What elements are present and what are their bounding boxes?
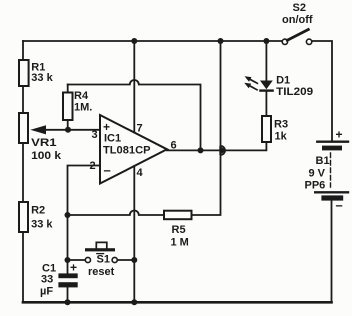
svg-text:9 V: 9 V: [309, 168, 326, 180]
svg-text:–: –: [104, 163, 111, 178]
node junction C1 bottom / rail: [65, 299, 71, 305]
wire R4 top to output (hop over pin7 line): [68, 80, 201, 150]
node junction R4 feedback / output: [198, 147, 204, 153]
svg-text:33 k: 33 k: [31, 72, 53, 84]
wire pin 2 to C1 node: [68, 166, 101, 216]
svg-text:IC1: IC1: [104, 133, 121, 145]
svg-text:R3: R3: [274, 119, 288, 131]
svg-text:µF: µF: [40, 286, 53, 298]
LED D1 TIL209: [244, 41, 313, 98]
wire pin 4 down to 0V rail: [133, 166, 135, 302]
wire bottom rail: [23, 301, 332, 304]
svg-text:R4: R4: [74, 90, 89, 102]
svg-text:33: 33: [41, 274, 53, 286]
node junction S1 right / pin4 line: [131, 257, 137, 263]
svg-text:VR1: VR1: [31, 137, 56, 149]
wire battery bottom to rail: [331, 201, 333, 302]
capacitor C1: [40, 215, 78, 302]
node junction pin7 / top rail: [131, 38, 137, 44]
svg-text:1 M: 1 M: [171, 237, 189, 249]
svg-text:R5: R5: [172, 224, 186, 236]
node junction R5 riser / top rail: [218, 38, 224, 44]
switch S2 on/off: [282, 2, 313, 45]
svg-text:33 k: 33 k: [31, 219, 53, 231]
svg-text:D1: D1: [276, 75, 290, 87]
wire left rail: [22, 41, 24, 302]
battery B1: [305, 128, 349, 213]
svg-text:PP6: PP6: [305, 180, 326, 192]
svg-text:7: 7: [137, 123, 143, 135]
svg-text:1M.: 1M.: [74, 102, 92, 114]
wire op-amp output to R3: [167, 142, 266, 150]
resistor R3: [262, 116, 288, 143]
svg-text:TL081CP: TL081CP: [103, 145, 151, 157]
op-amp IC1 TL081CP: [100, 115, 167, 184]
svg-text:4: 4: [137, 167, 144, 179]
svg-text:+: +: [336, 128, 343, 142]
resistor R4: [63, 85, 92, 128]
svg-text:S2: S2: [293, 2, 306, 14]
svg-text:R2: R2: [31, 205, 45, 217]
node junction pin4 line / bottom rail: [131, 299, 137, 305]
svg-text:B1: B1: [316, 155, 330, 167]
wire top rail: [23, 40, 282, 42]
node junction C1 top / S1: [65, 257, 71, 263]
svg-text:+: +: [70, 261, 77, 275]
svg-text:on/off: on/off: [282, 14, 313, 26]
svg-text:1k: 1k: [275, 131, 288, 143]
resistor R1: [19, 60, 54, 86]
wire R3 top to LED: [265, 92, 267, 117]
potentiometer VR1: [19, 113, 100, 162]
node junction LED / top rail: [263, 38, 269, 44]
resistor R5: [164, 211, 192, 249]
node junction pin2 / R5 / C1: [65, 212, 71, 218]
svg-text:100 k: 100 k: [31, 150, 62, 162]
svg-text:3: 3: [92, 129, 98, 141]
node junction VR1 wiper / R4: [65, 127, 71, 133]
wire R5 right to +V rail (hop over output wire): [192, 41, 226, 215]
switch S1 reset: [68, 242, 135, 278]
svg-text:TIL209: TIL209: [276, 86, 313, 98]
svg-text:–: –: [336, 198, 343, 213]
svg-text:reset: reset: [88, 266, 115, 278]
resistor R2: [19, 202, 53, 232]
wire pin2 node to R5 (hop over pin4 line): [68, 211, 165, 216]
wire S2 to battery top: [312, 41, 332, 141]
wire pin 7 to top rail: [133, 41, 135, 132]
svg-text:S1: S1: [97, 254, 110, 266]
